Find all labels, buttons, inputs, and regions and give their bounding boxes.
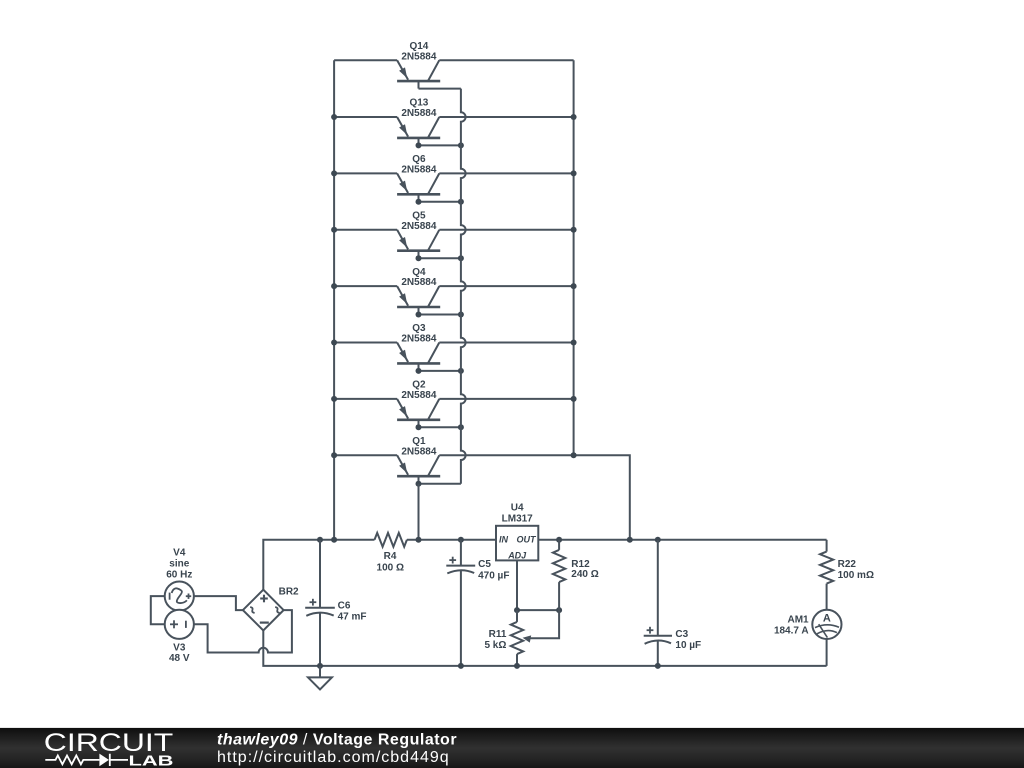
ammeter AM1 xyxy=(812,610,841,639)
wire: Q5 collector row xyxy=(439,229,573,231)
svg-text:60 Hz: 60 Hz xyxy=(166,569,192,580)
transistor Q5 (2N5884) xyxy=(397,230,440,258)
junction: rail / C6 xyxy=(317,537,323,543)
capacitor C6 xyxy=(305,540,335,666)
svg-text:100 mΩ: 100 mΩ xyxy=(838,570,874,581)
svg-text:ADJ: ADJ xyxy=(507,550,527,560)
wire: Q14 collector row xyxy=(439,59,573,61)
wire: Q5 base link xyxy=(419,257,461,259)
wire: Q3 base link xyxy=(419,370,461,372)
wire: Q5 emitter row xyxy=(334,229,397,231)
wire: ADJ pin down xyxy=(516,560,518,610)
svg-text:AM1: AM1 xyxy=(787,614,809,625)
transistor Q14 (2N5884) xyxy=(397,60,440,88)
svg-text:470 µF: 470 µF xyxy=(478,570,509,581)
junction: right bus / Q6 collector xyxy=(571,170,577,176)
transistor Q3 (2N5884) xyxy=(397,343,440,371)
junction: right bus / Q5 collector xyxy=(571,227,577,233)
junction: Q6 base / chain xyxy=(458,199,464,205)
junction: Q13 base pin xyxy=(416,142,422,148)
transistor Q13 (2N5884) xyxy=(397,117,440,145)
wire: Q1 emitter row xyxy=(334,454,397,456)
svg-text:Q3: Q3 xyxy=(412,323,426,334)
svg-text:100 Ω: 100 Ω xyxy=(377,563,404,574)
svg-text:C3: C3 xyxy=(675,629,688,640)
bridge rectifier BR2 xyxy=(243,590,284,631)
wire: V3- to bridge ac2 (with hop) xyxy=(194,610,292,652)
wire: Q2 base link xyxy=(419,426,461,428)
wire: bridge - to bottom rail xyxy=(263,630,826,666)
wire: ADJ node to R12 bottom xyxy=(517,609,559,611)
wire: Q14 emitter row xyxy=(334,59,397,61)
svg-text:48 V: 48 V xyxy=(169,653,190,664)
wire: Q6 base link xyxy=(419,201,461,203)
svg-text:V4: V4 xyxy=(173,547,186,558)
svg-text:Q5: Q5 xyxy=(412,211,426,222)
transistor Q1 (2N5884) xyxy=(397,455,440,483)
svg-text:Q13: Q13 xyxy=(409,98,428,109)
wire: AM1 to bottom rail xyxy=(826,639,828,666)
svg-text:2N5884: 2N5884 xyxy=(401,221,436,232)
CircuitLab logo resistor-diode glyph xyxy=(45,754,128,767)
wire: Q1 collector row xyxy=(439,455,630,540)
svg-text:C6: C6 xyxy=(338,600,351,611)
junction: Q4 base / chain xyxy=(458,312,464,318)
svg-text:R22: R22 xyxy=(838,559,857,570)
wire: Q6 emitter row xyxy=(334,172,397,174)
svg-text:5 kΩ: 5 kΩ xyxy=(484,640,506,651)
junction: left bus / Q5 emitter xyxy=(331,227,337,233)
junction: bottom rail / C3 xyxy=(655,663,661,669)
svg-text:http://circuitlab.com/cbd449q: http://circuitlab.com/cbd449q xyxy=(217,749,450,766)
transistor Q6 (2N5884) xyxy=(397,173,440,201)
wire: rail R4 to LM317 IN xyxy=(407,539,496,541)
wire: base chain vertical (with wire hops) xyxy=(461,89,466,484)
junction: bottom rail / C6 / ground xyxy=(317,663,323,669)
svg-text:Q2: Q2 xyxy=(412,380,426,391)
svg-text:A: A xyxy=(823,613,831,625)
junction: Q2 base pin xyxy=(416,424,422,430)
resistor R22 xyxy=(820,540,833,610)
wire: Q2 emitter row xyxy=(334,398,397,400)
junction: Q13 base / chain xyxy=(458,142,464,148)
regulator U4 LM317 xyxy=(496,526,538,561)
wire: Q13 emitter row xyxy=(334,116,397,118)
wire: Q4 collector row xyxy=(439,285,573,287)
potentiometer R11 xyxy=(511,610,559,666)
junction: Q4 base pin xyxy=(416,312,422,318)
junction: left bus / Q3 emitter xyxy=(331,340,337,346)
wire: rail from bridge to R4 xyxy=(263,540,374,590)
svg-text:V3: V3 xyxy=(173,642,186,653)
junction: right bus / Q4 collector xyxy=(571,283,577,289)
wire: V4- to V3+ loop xyxy=(151,596,165,624)
junction: Q5 base / chain xyxy=(458,255,464,261)
junction: right bus end / Q1 collector xyxy=(571,452,577,458)
svg-text:OUT: OUT xyxy=(517,535,538,545)
wire: left emitter bus (x=334) xyxy=(333,60,335,540)
svg-text:2N5884: 2N5884 xyxy=(401,108,436,119)
junction: Q3 base pin xyxy=(416,368,422,374)
junction: rail / left bus xyxy=(331,537,337,543)
svg-text:Q1: Q1 xyxy=(412,436,426,447)
wire: Q2 collector row xyxy=(439,398,573,400)
svg-text:2N5884: 2N5884 xyxy=(401,51,436,62)
wire: Q13 collector row xyxy=(439,116,573,118)
svg-text:Q6: Q6 xyxy=(412,154,426,165)
capacitor C5 xyxy=(446,540,475,666)
wire: Q14 base link xyxy=(419,88,461,90)
junction: left bus / Q4 emitter xyxy=(331,283,337,289)
junction: Q5 base pin xyxy=(416,255,422,261)
junction: left bus / Q13 emitter xyxy=(331,114,337,120)
wire: rail LM317 OUT to R22 xyxy=(538,539,826,541)
junction: ADJ node xyxy=(514,607,520,613)
wire: Q1 base link xyxy=(419,483,461,485)
wire: Q6 collector row xyxy=(439,172,573,174)
junction: right bus / Q2 collector xyxy=(571,396,577,402)
wire: Q3 collector row xyxy=(439,342,573,344)
junction: right bus / Q13 collector xyxy=(571,114,577,120)
junction: rail / collector loop xyxy=(627,537,633,543)
svg-text:IN: IN xyxy=(499,535,509,545)
junction: Q3 base / chain xyxy=(458,368,464,374)
voltage source V3 (48 V) xyxy=(165,610,194,639)
svg-text:U4: U4 xyxy=(511,503,524,514)
svg-text:sine: sine xyxy=(169,558,189,569)
junction: right bus / Q3 collector xyxy=(571,340,577,346)
junction: rail / C3 xyxy=(655,537,661,543)
wire: right collector bus (x=574) xyxy=(573,60,575,455)
resistor R12 xyxy=(553,540,565,610)
junction: bottom rail / R11 xyxy=(514,663,520,669)
wire: Q1 base to rail xyxy=(418,484,420,540)
svg-text:2N5884: 2N5884 xyxy=(401,446,436,457)
svg-text:BR2: BR2 xyxy=(279,587,299,598)
wire: V4+ to bridge ac1 xyxy=(194,596,243,610)
wire: Q3 emitter row xyxy=(334,342,397,344)
svg-text:2N5884: 2N5884 xyxy=(401,334,436,345)
junction: left bus / Q2 emitter xyxy=(331,396,337,402)
junction: Q2 base / chain xyxy=(458,424,464,430)
footer banner xyxy=(0,728,1024,768)
svg-text:thawley09 / Voltage Regulator: thawley09 / Voltage Regulator xyxy=(217,732,457,749)
svg-text:Q14: Q14 xyxy=(409,41,428,52)
junction: rail / R12 xyxy=(556,537,562,543)
junction: rail / Q1 base branch xyxy=(416,537,422,543)
voltage source V4 (sine) xyxy=(165,582,194,611)
svg-text:LM317: LM317 xyxy=(502,514,534,525)
resistor R4 xyxy=(375,533,407,547)
svg-text:184.7 A: 184.7 A xyxy=(774,626,809,637)
svg-text:240 Ω: 240 Ω xyxy=(571,569,598,580)
wire: Q4 base link xyxy=(419,314,461,316)
svg-text:R12: R12 xyxy=(571,559,590,570)
transistor Q2 (2N5884) xyxy=(397,399,440,427)
junction: Q6 base pin xyxy=(416,199,422,205)
svg-text:R4: R4 xyxy=(384,551,397,562)
svg-text:2N5884: 2N5884 xyxy=(401,390,436,401)
svg-text:10 µF: 10 µF xyxy=(675,640,701,651)
svg-text:C5: C5 xyxy=(478,559,491,570)
junction: left bus / Q6 emitter xyxy=(331,170,337,176)
junction: Q1 base node xyxy=(416,481,422,487)
svg-text:Q4: Q4 xyxy=(412,267,426,278)
wire: Q13 base link xyxy=(419,144,461,146)
transistor Q4 (2N5884) xyxy=(397,286,440,314)
junction: rail / C5 xyxy=(458,537,464,543)
ground xyxy=(308,666,332,690)
capacitor C3 xyxy=(644,540,672,666)
svg-text:LAB: LAB xyxy=(129,752,174,768)
junction: left bus / Q1 emitter xyxy=(331,452,337,458)
junction: bottom rail / C5 xyxy=(458,663,464,669)
svg-text:2N5884: 2N5884 xyxy=(401,277,436,288)
junction: R12 bottom node xyxy=(556,607,562,613)
svg-text:47 mF: 47 mF xyxy=(338,612,367,623)
svg-text:R11: R11 xyxy=(489,629,507,640)
svg-text:2N5884: 2N5884 xyxy=(401,165,436,176)
wire: Q4 emitter row xyxy=(334,285,397,287)
